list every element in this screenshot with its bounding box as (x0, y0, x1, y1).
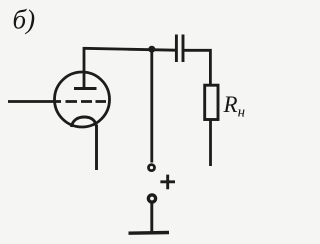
tube V1 envelope (55, 72, 110, 127)
svg-text:б): б) (13, 5, 36, 35)
output terminal upper (149, 165, 155, 171)
wire junction down to output terminal (150, 49, 153, 163)
output terminal lower (148, 195, 155, 202)
grid dashed electrode (66, 100, 107, 103)
grid lead wire (8, 100, 61, 103)
resistor Rн body (205, 85, 218, 119)
ground bar (129, 231, 170, 235)
capacitor C left plate (175, 35, 178, 63)
wire lower terminal to ground bar (150, 203, 153, 232)
wire capacitor to corner (184, 50, 210, 86)
capacitor C right plate (182, 35, 185, 63)
node junction (148, 46, 155, 53)
anode lead wire (83, 47, 86, 89)
cathode (72, 117, 97, 127)
resistor bottom lead wire (209, 120, 212, 167)
wire top horizontal (84, 48, 176, 50)
cathode lead wire (95, 125, 98, 170)
anode plate (74, 87, 97, 90)
plus sign (160, 175, 175, 190)
